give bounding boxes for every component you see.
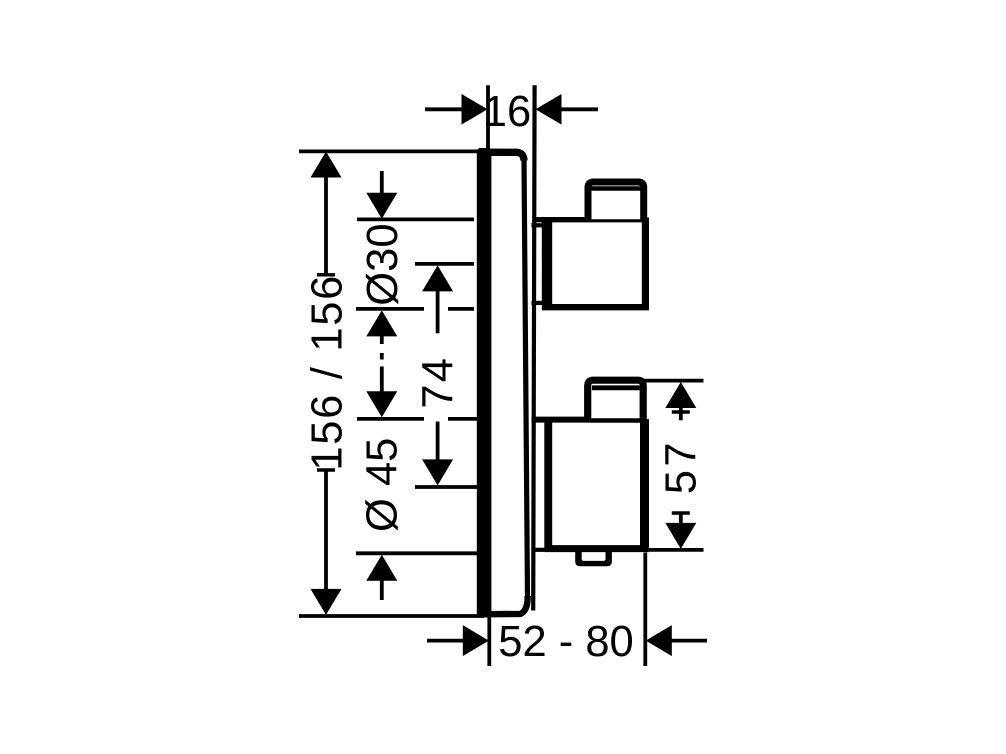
- top handle body top edge under tab (thin): [590, 219, 645, 222]
- dim 57 lower tail: [679, 512, 683, 524]
- svg-text:Ø 45: Ø 45: [359, 438, 407, 532]
- plate top edge: [479, 152, 524, 160]
- dim D45 bottom reference line: [356, 551, 477, 555]
- dim 156/156 extension line top: [299, 149, 478, 153]
- top handle body bottom edge: [542, 304, 649, 310]
- dim 52-80 extension line right: [643, 553, 647, 667]
- top handle body right edge: [642, 218, 649, 309]
- svg-text:16: 16: [483, 88, 531, 136]
- dim D45 top reference line left part: [357, 417, 424, 421]
- bottom handle body top edge: [532, 417, 592, 423]
- top handle body top edge: [533, 217, 590, 222]
- plate bottom edge: [479, 596, 528, 614]
- dim 156/156 arrow up: [311, 152, 342, 178]
- dim D30 bottom reference line left part: [356, 307, 424, 311]
- svg-text:57: 57: [657, 439, 705, 494]
- dim 156/156 arrow down: [311, 589, 342, 615]
- dim D30/D45 dash between: [380, 353, 384, 360]
- dim D30 upper tail: [380, 171, 384, 195]
- bottom handle button: [575, 549, 612, 566]
- dim 156/156 tick bottom: [317, 468, 335, 471]
- dim 57 arrow down: [665, 523, 696, 549]
- bottom handle body bottom edge: [545, 545, 649, 552]
- dim D30 tail below: [380, 336, 384, 344]
- top handle sleeve top edge: [532, 223, 547, 227]
- dim 57 tick top: [672, 410, 690, 413]
- top handle tab outline: [588, 182, 644, 220]
- dim 57 bottom reference line: [649, 548, 704, 552]
- svg-text:74: 74: [414, 356, 462, 409]
- dim 52-80 tail left: [427, 639, 463, 643]
- bottom handle body top edge under tab: [591, 418, 641, 422]
- dim D45 arrow up: [366, 555, 397, 581]
- dim 52-80 tail right: [672, 639, 708, 643]
- dim 74 arrow up: [422, 265, 453, 291]
- dim 57 upper tail: [679, 408, 683, 421]
- dim 52-80 arrow right (pointing left): [646, 625, 672, 656]
- dim 57 arrow up: [665, 382, 696, 408]
- dim D30 top reference line: [357, 217, 474, 221]
- bottom handle tab inner line: [592, 385, 640, 390]
- dim 16 tail left: [425, 107, 462, 111]
- dim D30 arrow up: [366, 310, 397, 336]
- bottom handle body right edge: [640, 419, 649, 549]
- dim 16 extension line left: [486, 85, 490, 149]
- dim 74 top reference line: [415, 262, 474, 266]
- dim 74 arrow down: [422, 459, 453, 485]
- wall line: [533, 85, 534, 610]
- dim 156/156 tick top: [317, 273, 335, 276]
- dim D30 arrow down: [366, 193, 397, 219]
- svg-text:Ø30: Ø30: [359, 223, 407, 305]
- svg-text:52 - 80: 52 - 80: [498, 618, 633, 666]
- dim 57 tick bottom: [672, 511, 690, 514]
- top handle body left bar: [542, 217, 552, 310]
- plate right edge: [524, 160, 528, 598]
- dim D45 upper tail: [380, 367, 384, 392]
- dim 16 arrow left (pointing right): [462, 94, 488, 125]
- dim D45 top reference line right part: [448, 417, 477, 421]
- top handle tab inner line: [592, 186, 642, 191]
- plate front face (thick bar): [477, 148, 492, 618]
- dim 16 arrow right (pointing left): [536, 94, 562, 125]
- dim D45 lower tail: [380, 581, 384, 601]
- dim 52-80 extension line left: [487, 618, 491, 667]
- dim 74 lower tail: [436, 422, 440, 460]
- dim 156/156 extension line bottom: [299, 614, 484, 618]
- dim 74 bottom reference line: [415, 485, 477, 489]
- bottom handle tab outline: [588, 380, 644, 420]
- dim 156/156 upper tail: [324, 177, 328, 276]
- dim D30 bottom reference line right part: [448, 307, 474, 311]
- dim 52-80 arrow left (pointing right): [463, 625, 489, 656]
- bottom handle body left bar: [544, 418, 552, 551]
- svg-text:156 / 156: 156 / 156: [304, 274, 352, 471]
- dim 156/156 lower tail: [324, 470, 328, 590]
- dim 16 tail right: [561, 107, 598, 111]
- dim 57 top reference line: [644, 379, 704, 383]
- top handle sleeve bottom edge: [532, 301, 547, 305]
- bottom handle sleeve bottom edge: [532, 548, 547, 552]
- dim 74 upper tail: [436, 291, 440, 333]
- dim D45 arrow down: [366, 391, 397, 417]
